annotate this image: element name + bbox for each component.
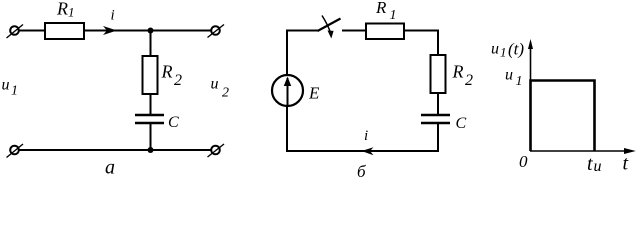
svg-text:2: 2 (222, 86, 229, 101)
svg-text:i: i (111, 8, 115, 24)
resistor R1 (circuit b) (366, 24, 404, 40)
svg-text:1: 1 (11, 84, 18, 99)
wire R1 to right corner (circuit b) (404, 31, 438, 56)
terminal bottom-right (circuit a) (208, 144, 225, 157)
svg-text:(t): (t) (508, 40, 524, 59)
resistor R1 (circuit a) (45, 23, 84, 39)
wire capacitor to bottom node (150, 123, 152, 150)
current arrow i (circuit b) (362, 147, 374, 155)
svg-text:C: C (456, 115, 467, 132)
svg-text:0: 0 (519, 152, 528, 171)
svg-text:i: i (364, 128, 368, 144)
label t_u pulse width (587, 153, 602, 175)
svg-text:2: 2 (174, 72, 182, 89)
wire R2 to capacitor (150, 94, 152, 115)
top wire to switch (circuit b) (286, 30, 319, 32)
svg-text:1: 1 (68, 5, 75, 20)
svg-text:u: u (211, 76, 219, 93)
terminal top-right (circuit a) (208, 25, 225, 38)
svg-text:R: R (452, 62, 464, 82)
node junction bottom (circuit a) (148, 147, 154, 153)
x axis t (530, 148, 636, 154)
label u1 level (505, 67, 523, 90)
capacitor C (circuit a) (135, 115, 164, 123)
wire R1 to node, with current arrow (84, 30, 212, 32)
y axis u1(t) (528, 39, 533, 151)
source E (circuit b) (272, 75, 303, 106)
node junction top (circuit a) (148, 28, 154, 34)
svg-text:1: 1 (500, 45, 507, 60)
svg-text:1: 1 (390, 8, 397, 23)
left vertical wire (circuit b) (286, 31, 288, 152)
pulse curve u1(t) (531, 81, 595, 152)
wire R2 to capacitor (circuit b) (437, 93, 439, 115)
capacitor C (circuit b) (421, 115, 450, 123)
resistor R2 (circuit a) (143, 56, 158, 94)
svg-text:2: 2 (465, 72, 473, 89)
bottom wire (circuit a) (19, 149, 212, 151)
svg-text:u: u (505, 67, 513, 84)
wire terminal to R1 (19, 30, 45, 32)
svg-text:t: t (587, 153, 593, 175)
svg-text:u: u (491, 41, 499, 58)
terminal bottom-left (circuit a) (7, 144, 24, 158)
wire switch to R1 (circuit b) (342, 30, 366, 32)
svg-text:t: t (623, 153, 629, 175)
svg-text:R: R (161, 62, 173, 82)
switch blade (318, 19, 341, 32)
svg-text:u: u (2, 77, 10, 94)
terminal top-left (circuit a) (7, 25, 24, 39)
svg-text:R: R (375, 0, 387, 17)
svg-text:a: a (105, 157, 115, 179)
wire node to R2 (150, 31, 152, 57)
current arrow i (circuit a) (103, 26, 117, 35)
resistor R2 (circuit b) (431, 55, 446, 93)
svg-text:и: и (594, 158, 602, 175)
svg-text:б: б (357, 162, 366, 180)
switch closing arrow (322, 16, 334, 39)
svg-text:E: E (308, 84, 320, 103)
svg-text:R: R (56, 0, 68, 19)
label u1(t) axis (491, 40, 524, 60)
svg-text:1: 1 (516, 74, 523, 89)
svg-text:C: C (168, 114, 179, 131)
wire capacitor to bottom (circuit b) (286, 123, 438, 151)
